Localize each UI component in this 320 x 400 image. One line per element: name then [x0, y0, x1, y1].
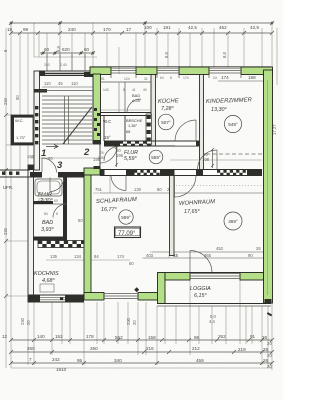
- loggia bottom: [157, 303, 271, 305]
- left flat entry door: [50, 178, 64, 192]
- svg-text:212: 212: [192, 346, 200, 351]
- svg-text:1910´: 1910´: [56, 367, 68, 372]
- svg-text:507°: 507°: [161, 120, 171, 125]
- svg-text:8: 8: [56, 212, 58, 216]
- svg-text:1,73°: 1,73°: [16, 135, 26, 140]
- svg-text:230: 230: [20, 317, 25, 325]
- svg-text:51: 51: [101, 77, 105, 81]
- top outer wall pier 4 / corner (green): [241, 67, 273, 75]
- svg-text:20: 20: [132, 320, 137, 325]
- svg-text:569°: 569°: [121, 215, 131, 220]
- corridor spine wall right part: [100, 170, 262, 176]
- stairwell: [40, 54, 152, 149]
- svg-text:90: 90: [48, 156, 53, 161]
- loggia west wall (green): [158, 273, 166, 304]
- svg-text:8,8: 8,8: [164, 52, 169, 58]
- svg-text:559°: 559°: [151, 155, 161, 160]
- svg-text:130: 130: [134, 187, 142, 192]
- svg-text:170: 170: [103, 27, 111, 32]
- svg-text:20: 20: [267, 364, 272, 369]
- svg-text:174: 174: [117, 254, 125, 259]
- svg-text:110: 110: [71, 81, 78, 86]
- svg-text:552: 552: [115, 335, 123, 340]
- svg-text:BAD: BAD: [42, 220, 53, 226]
- svg-text:8: 8: [170, 76, 172, 80]
- svg-text:13,30°: 13,30°: [211, 107, 227, 113]
- door arcs: [42, 120, 217, 273]
- checker row under BAD: [38, 241, 90, 248]
- svg-text:20: 20: [267, 353, 272, 358]
- svg-text:64: 64: [160, 76, 164, 80]
- left outer wall lower: [28, 165, 34, 302]
- svg-text:549°: 549°: [228, 122, 238, 127]
- svg-text:W.C: W.C: [103, 119, 111, 124]
- svg-text:262: 262: [218, 334, 226, 339]
- svg-text:18: 18: [7, 27, 13, 32]
- svg-text:134: 134: [74, 254, 82, 259]
- svg-text:452: 452: [216, 246, 224, 251]
- svg-text:191: 191: [163, 25, 171, 30]
- svg-text:15°: 15°: [104, 135, 111, 140]
- dimension chains: [2, 21, 277, 372]
- svg-text:369°: 369°: [228, 219, 238, 224]
- kueche door: [175, 120, 196, 141]
- svg-text:91: 91: [250, 334, 256, 339]
- svg-text:7: 7: [29, 357, 32, 362]
- schlafraum door: [111, 176, 126, 191]
- svg-text:99: 99: [23, 27, 29, 32]
- svg-text:04: 04: [213, 76, 217, 80]
- svg-text:45: 45: [58, 81, 63, 86]
- svg-text:LOGGIA: LOGGIA: [190, 286, 211, 292]
- svg-text:620: 620: [62, 47, 70, 52]
- svg-text:26: 26: [262, 335, 268, 340]
- kueche west wall: [151, 74, 156, 146]
- extension line grid (light): [6, 23, 277, 370]
- top outer wall pier 3 (green): [179, 67, 209, 75]
- svg-text:174: 174: [183, 76, 189, 80]
- left outer wall upper: [34, 71, 40, 170]
- svg-text:260: 260: [90, 346, 98, 351]
- svg-text:198: 198: [202, 157, 210, 162]
- svg-text:20: 20: [267, 341, 272, 346]
- svg-text:2: 2: [83, 147, 90, 158]
- wc door: [104, 147, 119, 162]
- svg-text:2,40: 2,40: [60, 63, 67, 67]
- svg-text:20: 20: [100, 151, 104, 155]
- stamps: [119, 114, 242, 230]
- svg-text:60: 60: [84, 47, 90, 52]
- svg-text:26: 26: [263, 358, 269, 363]
- checkers in spine: [134, 170, 246, 176]
- svg-text:8,8: 8,8: [56, 46, 61, 52]
- schlafraum/wohnraum wall: [170, 176, 175, 256]
- svg-text:43,9: 43,9: [250, 25, 259, 30]
- svg-text:KÜCHE: KÜCHE: [158, 97, 179, 105]
- svg-text:174: 174: [221, 75, 229, 80]
- BAD inner wall + door: [33, 177, 67, 240]
- green highlighted apartment walls: [84, 67, 273, 304]
- room labels: [3, 97, 272, 324]
- WC room upper-left: [11, 115, 33, 145]
- bottom wall left flat (KOCHNIS): [28, 295, 84, 302]
- top outer wall pier 1 (green): [90, 67, 111, 75]
- brsche checker column: [146, 114, 152, 144]
- right outer wall (green): [264, 70, 273, 303]
- top wall of left (stair) block: [37, 71, 93, 76]
- svg-text:195: 195: [27, 154, 35, 159]
- svg-text:95: 95: [77, 358, 83, 363]
- left apartment wall upper (green, stair side): [93, 74, 101, 144]
- svg-text:41: 41: [132, 88, 136, 92]
- svg-text:365: 365: [204, 253, 212, 258]
- svg-text:100: 100: [144, 25, 152, 30]
- entry jog wall (green): [84, 168, 100, 175]
- svg-text:UFR.: UFR.: [3, 185, 13, 190]
- svg-text:158: 158: [148, 335, 156, 340]
- upper service rooms right of stair (BAD 4,24): [100, 82, 151, 112]
- svg-text:198: 198: [248, 75, 256, 80]
- svg-text:17,65°: 17,65°: [184, 209, 200, 215]
- svg-text:260: 260: [27, 346, 35, 351]
- svg-text:17: 17: [126, 27, 132, 32]
- svg-text:2,30: 2,30: [38, 198, 45, 202]
- top outer wall pier 2 (green): [136, 67, 157, 75]
- svg-text:140: 140: [37, 334, 45, 339]
- wc divider: [124, 115, 126, 141]
- svg-text:459: 459: [196, 358, 204, 363]
- svg-text:340: 340: [114, 358, 122, 363]
- svg-text:452: 452: [219, 25, 227, 30]
- svg-text:84: 84: [44, 212, 48, 216]
- svg-text:124: 124: [124, 77, 130, 81]
- svg-text:219: 219: [238, 347, 246, 352]
- svg-text:26: 26: [256, 246, 261, 251]
- svg-text:1: 1: [41, 148, 46, 159]
- svg-text:60: 60: [54, 199, 58, 203]
- svg-text:195: 195: [93, 157, 101, 162]
- svg-text:90: 90: [248, 253, 253, 258]
- total area box: [115, 227, 141, 238]
- svg-text:60: 60: [44, 47, 50, 52]
- left apartment wall lower (green): [84, 175, 91, 298]
- svg-text:68: 68: [126, 129, 130, 134]
- wohnraum door: [175, 176, 197, 198]
- svg-text:240: 240: [68, 27, 76, 32]
- svg-text:60: 60: [129, 261, 134, 266]
- svg-text:751: 751: [95, 187, 103, 192]
- svg-text:90: 90: [15, 95, 20, 100]
- kinderzimmer door: [198, 150, 218, 170]
- svg-text:230: 230: [3, 97, 8, 105]
- svg-text:20: 20: [26, 320, 31, 325]
- svg-text:8,8: 8,8: [222, 52, 227, 58]
- flat numbers: [41, 147, 90, 171]
- dashed beam lines: [206, 153, 262, 155]
- svg-text:31: 31: [144, 77, 148, 81]
- wc/brsche top wall: [100, 112, 151, 114]
- svg-text:178: 178: [86, 334, 94, 339]
- kueche east wall: [200, 74, 204, 170]
- svg-text:3: 3: [57, 160, 63, 171]
- loggia door: [190, 251, 212, 273]
- svg-text:8: 8: [123, 88, 125, 92]
- svg-text:40: 40: [143, 88, 147, 92]
- svg-text:26: 26: [263, 347, 269, 352]
- windows in top wall: [111, 68, 241, 73]
- bad door: [53, 204, 67, 218]
- svg-text:4,4: 4,4: [209, 319, 215, 324]
- svg-text:96: 96: [194, 335, 200, 340]
- svg-text:60: 60: [78, 218, 83, 223]
- svg-text:135: 135: [50, 254, 58, 259]
- schlafraum bottom wall (green): [84, 293, 104, 301]
- svg-text:195: 195: [116, 153, 124, 158]
- BAD south wall with checker: [33, 237, 67, 241]
- svg-text:12: 12: [2, 334, 8, 339]
- svg-text:140: 140: [103, 88, 109, 92]
- svg-text:84: 84: [94, 254, 99, 259]
- svg-text:W.C.: W.C.: [15, 118, 24, 123]
- svg-text:3,93°: 3,93°: [41, 227, 54, 233]
- svg-text:80: 80: [157, 187, 162, 192]
- wohnraum bottom wall (green): [165, 273, 190, 281]
- svg-text:6,15°: 6,15°: [194, 293, 207, 299]
- stair hall door: [42, 158, 57, 173]
- svg-text:110: 110: [44, 81, 51, 86]
- svg-text:77,09°: 77,09°: [118, 231, 136, 237]
- svg-text:230: 230: [3, 227, 8, 235]
- svg-text:242: 242: [52, 357, 60, 362]
- svg-text:1,38°: 1,38°: [128, 123, 138, 128]
- svg-text:403: 403: [146, 253, 154, 258]
- wc/brsche bottom wall: [104, 141, 200, 146]
- dark structural walls: [0, 57, 271, 306]
- svg-text:5,59°: 5,59°: [124, 156, 137, 162]
- svg-text:152: 152: [55, 334, 63, 339]
- svg-text:16,77°: 16,77°: [101, 207, 117, 213]
- svg-text:230: 230: [126, 317, 131, 325]
- svg-text:KOCHNIS: KOCHNIS: [34, 271, 59, 277]
- svg-text:42,5: 42,5: [188, 25, 197, 30]
- apartment entry door: [100, 146, 117, 163]
- svg-text:7,28°: 7,28°: [161, 106, 174, 112]
- small solid marks: [134, 287, 139, 292]
- bathtub in BAD: [35, 179, 62, 196]
- svg-text:4,68°: 4,68°: [42, 278, 55, 284]
- mid spine wall left of green (party walls / flur): [0, 170, 30, 177]
- svg-text:216: 216: [146, 346, 154, 351]
